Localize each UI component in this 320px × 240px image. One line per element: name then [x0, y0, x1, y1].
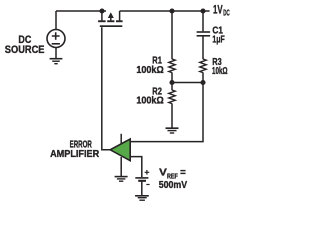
body stub with arrow [110, 18, 112, 21]
node dot (R3 bottom / feedback) [200, 80, 205, 85]
label DC SOURCE [5, 34, 45, 56]
label R2 100k [136, 87, 163, 107]
ground (below DC source) [50, 59, 63, 64]
svg-text:10kΩ: 10kΩ [212, 66, 228, 77]
gate plate [100, 25, 123, 27]
op-amp U1 error amplifier [110, 139, 130, 161]
svg-text:=: = [180, 167, 186, 179]
node dot (rail / MOSFET source) [99, 8, 104, 13]
node dot (rail / R1) [169, 8, 174, 13]
svg-text:500mV: 500mV [159, 179, 187, 191]
svg-text:V: V [159, 166, 167, 178]
svg-text:100kΩ: 100kΩ [136, 65, 163, 76]
resistor R1 [169, 59, 175, 73]
label C1 1uF [212, 25, 224, 45]
wire R1 bottom / R2 top junction [171, 73, 173, 91]
transistor Q1 (PMOS pass device) [98, 11, 123, 27]
wire amplifier lower input to VREF battery [130, 157, 141, 178]
wire DC source bottom lead [55, 47, 57, 58]
svg-text:1V: 1V [213, 4, 223, 16]
wire DC source top lead [55, 11, 57, 30]
wire C1 top lead from rail [202, 11, 204, 31]
svg-text:1μF: 1μF [212, 34, 224, 45]
source stub [101, 11, 103, 20]
wire MOSFET gate lead down to amplifier output [102, 27, 111, 150]
label 1VDC output [213, 4, 230, 17]
ground (below R2) [166, 128, 179, 133]
svg-text:DC: DC [223, 8, 229, 17]
label VREF = 500mV [159, 166, 187, 191]
ground (amplifier) [115, 177, 128, 182]
drain stub [119, 11, 121, 20]
node dot (R1/R2 midpoint) [169, 80, 174, 85]
label R1 100k [136, 56, 163, 77]
label R3 10k [212, 57, 228, 77]
wire top rail right (MOSFET drain to output) [120, 10, 210, 12]
wire C1 to R3 [202, 37, 204, 60]
wire battery bottom to ground [141, 182, 143, 196]
label ERROR AMPLIFIER [50, 139, 100, 160]
resistor R3 [200, 59, 206, 73]
svg-text:AMPLIFIER: AMPLIFIER [50, 149, 100, 160]
wire R2 bottom to ground [171, 104, 173, 128]
svg-text:100kΩ: 100kΩ [136, 96, 163, 107]
capacitor C1 [197, 32, 211, 36]
node dot (rail / C1) [200, 8, 205, 13]
wire R1 top lead from rail [171, 11, 173, 59]
svg-text:SOURCE: SOURCE [5, 44, 45, 56]
wire node A (R1/R2 midpoint to R3 bottom) [172, 82, 203, 84]
wire amplifier supply stub [120, 134, 122, 145]
DC source V1 [47, 30, 65, 48]
resistor R2 [169, 90, 175, 104]
wire feedback (node A down and left to amplifier input) [130, 83, 203, 142]
wire R3 bottom lead [202, 73, 204, 83]
wire top rail left (DC source to MOSFET source) [56, 10, 106, 12]
wire amplifier ground lead [120, 157, 122, 176]
battery VREF [135, 178, 148, 181]
battery polarity marks [145, 170, 150, 185]
ground (battery) [135, 196, 149, 200]
